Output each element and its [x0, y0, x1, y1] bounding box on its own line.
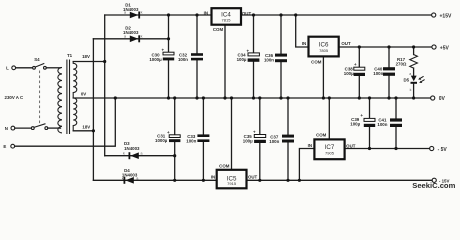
- wire D2 row: [93, 38, 168, 40]
- terminal -5V: [430, 146, 448, 153]
- transformer T1: [58, 53, 90, 134]
- switch S4 pole 2: [31, 124, 47, 130]
- junction dots transformer taps: [92, 60, 106, 132]
- svg-text:OUT: OUT: [242, 11, 252, 16]
- svg-text:N: N: [5, 126, 8, 131]
- svg-text:OUT: OUT: [248, 174, 258, 179]
- svg-text:k: k: [141, 11, 143, 15]
- svg-text:+: +: [253, 129, 256, 134]
- svg-text:a: a: [136, 176, 138, 180]
- diode D3 1N4003: [123, 141, 143, 159]
- capacitor C31 1000u: [155, 98, 180, 180]
- svg-text:OUT: OUT: [346, 143, 356, 148]
- wire bottom 18V tap: [73, 130, 93, 132]
- capacitor C35 100u: [243, 98, 266, 180]
- wire switch to transformer primary top: [46, 67, 60, 69]
- regulator IC7 7905: [308, 98, 356, 159]
- svg-text:100µ: 100µ: [237, 57, 247, 62]
- terminal E: [3, 144, 14, 149]
- capacitor C33 100n: [186, 98, 209, 180]
- svg-text:COM: COM: [316, 132, 327, 137]
- capacitor C32 100n: [178, 15, 203, 98]
- svg-text:IN: IN: [308, 143, 312, 148]
- switch gang dashed link: [39, 71, 41, 126]
- svg-text:+15V: +15V: [440, 13, 452, 19]
- wire top 18V tap: [73, 61, 105, 63]
- svg-text:IN: IN: [302, 41, 306, 46]
- svg-text:1000µ: 1000µ: [155, 138, 168, 143]
- diode D4 1N4003: [122, 168, 139, 184]
- svg-text:7815: 7815: [222, 17, 232, 22]
- svg-text:SeekiC.com: SeekiC.com: [412, 181, 455, 190]
- svg-text:k: k: [141, 34, 143, 38]
- wire switch pole 2 to transformer primary bottom: [48, 127, 61, 129]
- svg-text:IN: IN: [211, 174, 215, 179]
- svg-text:100µ: 100µ: [350, 122, 360, 127]
- secondary upper winding: [73, 62, 77, 99]
- svg-text:COM: COM: [219, 164, 230, 169]
- wire D4 row / -raw bus to IC5 IN: [93, 179, 216, 181]
- junction dots -15V rail: [258, 179, 301, 182]
- svg-text:100n: 100n: [186, 139, 196, 144]
- svg-text:a: a: [124, 34, 126, 38]
- wire 0V rail: [73, 97, 430, 99]
- wire D3 row: [105, 155, 175, 157]
- regulator IC4 7815: [204, 8, 252, 98]
- junction dots +15V rail: [252, 13, 297, 16]
- wire earth run E to 0V: [15, 98, 116, 146]
- svg-text:+5V: +5V: [440, 45, 450, 51]
- wire node vertical (bottom tap / D2 / D4): [92, 39, 94, 181]
- diode D1 1N4003: [123, 3, 143, 19]
- svg-text:230V A C: 230V A C: [5, 95, 25, 100]
- svg-text:S4: S4: [34, 57, 40, 62]
- wire -15V rail: [247, 179, 433, 181]
- svg-text:0V: 0V: [81, 92, 86, 97]
- svg-text:270Ω: 270Ω: [396, 62, 407, 67]
- capacitor C39 100u: [350, 98, 375, 149]
- regulator IC6 7805: [302, 37, 351, 98]
- junction dots +raw bus: [167, 13, 199, 40]
- svg-text:a: a: [141, 152, 143, 156]
- capacitor C30 1000u: [149, 15, 174, 98]
- wire L to switch: [16, 67, 33, 69]
- svg-text:a: a: [124, 11, 126, 15]
- terminal N: [5, 126, 15, 131]
- svg-text:COM: COM: [311, 59, 322, 64]
- svg-text:100n: 100n: [178, 57, 188, 62]
- secondary lower winding: [73, 98, 77, 131]
- wire +15V rail: [241, 14, 432, 16]
- regulator IC5 7915: [211, 98, 258, 188]
- svg-text:- 5V: - 5V: [438, 147, 448, 153]
- terminal -15V: [432, 178, 449, 183]
- terminal +15V: [432, 13, 452, 19]
- core: [67, 60, 70, 135]
- svg-text:100µ: 100µ: [243, 139, 253, 144]
- capacitor C34 100u: [237, 15, 260, 98]
- primary winding: [58, 67, 62, 132]
- svg-text:+: +: [354, 62, 357, 67]
- svg-text:7805: 7805: [319, 48, 329, 53]
- svg-text:L: L: [6, 66, 9, 71]
- wire N to switch pole 2: [15, 127, 31, 129]
- wire +5V rail: [339, 46, 432, 48]
- svg-text:100n: 100n: [264, 58, 274, 63]
- svg-text:+: +: [167, 130, 170, 135]
- svg-text:1000µ: 1000µ: [149, 57, 162, 62]
- capacitor C40 100n: [373, 47, 395, 98]
- svg-text:T1: T1: [67, 53, 73, 58]
- wire IC6 input feed from +15V rail: [296, 15, 309, 47]
- terminal 0V: [431, 96, 446, 102]
- junction dots +5V rail: [358, 45, 416, 48]
- svg-text:k: k: [123, 152, 125, 156]
- svg-text:OUT: OUT: [341, 41, 351, 46]
- svg-text:7915: 7915: [227, 181, 237, 186]
- svg-text:D5: D5: [403, 78, 409, 83]
- svg-text:100n: 100n: [269, 139, 279, 144]
- diode D2 1N4003: [123, 26, 143, 43]
- terminal L: [6, 66, 15, 71]
- svg-text:100n: 100n: [377, 122, 387, 127]
- svg-text:18V: 18V: [82, 125, 90, 130]
- svg-text:7905: 7905: [325, 151, 335, 156]
- svg-text:100n: 100n: [373, 71, 383, 76]
- capacitor C38 100u: [344, 47, 365, 98]
- svg-text:+: +: [360, 113, 363, 118]
- wire -5V rail: [345, 148, 430, 150]
- capacitor C37 100n: [269, 98, 294, 180]
- svg-text:k: k: [410, 88, 412, 92]
- svg-text:COM: COM: [213, 27, 224, 32]
- switch S4 pole 1: [33, 57, 47, 69]
- wire IC7 input feed from -15V rail: [299, 149, 314, 181]
- svg-text:0V: 0V: [439, 96, 446, 102]
- resistor R17 270 ohm: [396, 47, 418, 76]
- wire D1 row / +raw bus to IC4 IN: [105, 14, 212, 16]
- wire node vertical (top tap / D1 / D3): [104, 15, 106, 156]
- junction dots 0V rail: [114, 96, 416, 99]
- capacitor C41 100n: [377, 98, 402, 149]
- svg-text:18V: 18V: [82, 54, 90, 59]
- terminal +5V: [432, 45, 450, 51]
- svg-text:1N4003: 1N4003: [124, 146, 140, 151]
- svg-text:a: a: [409, 72, 411, 76]
- svg-text:E: E: [3, 144, 6, 149]
- LED D5: [403, 72, 424, 98]
- junction dots -5V rail: [368, 147, 398, 150]
- svg-text:100µ: 100µ: [344, 71, 354, 76]
- svg-text:IN: IN: [204, 11, 208, 16]
- capacitor C36 100n: [264, 15, 287, 98]
- junction dots -raw bus: [173, 154, 205, 182]
